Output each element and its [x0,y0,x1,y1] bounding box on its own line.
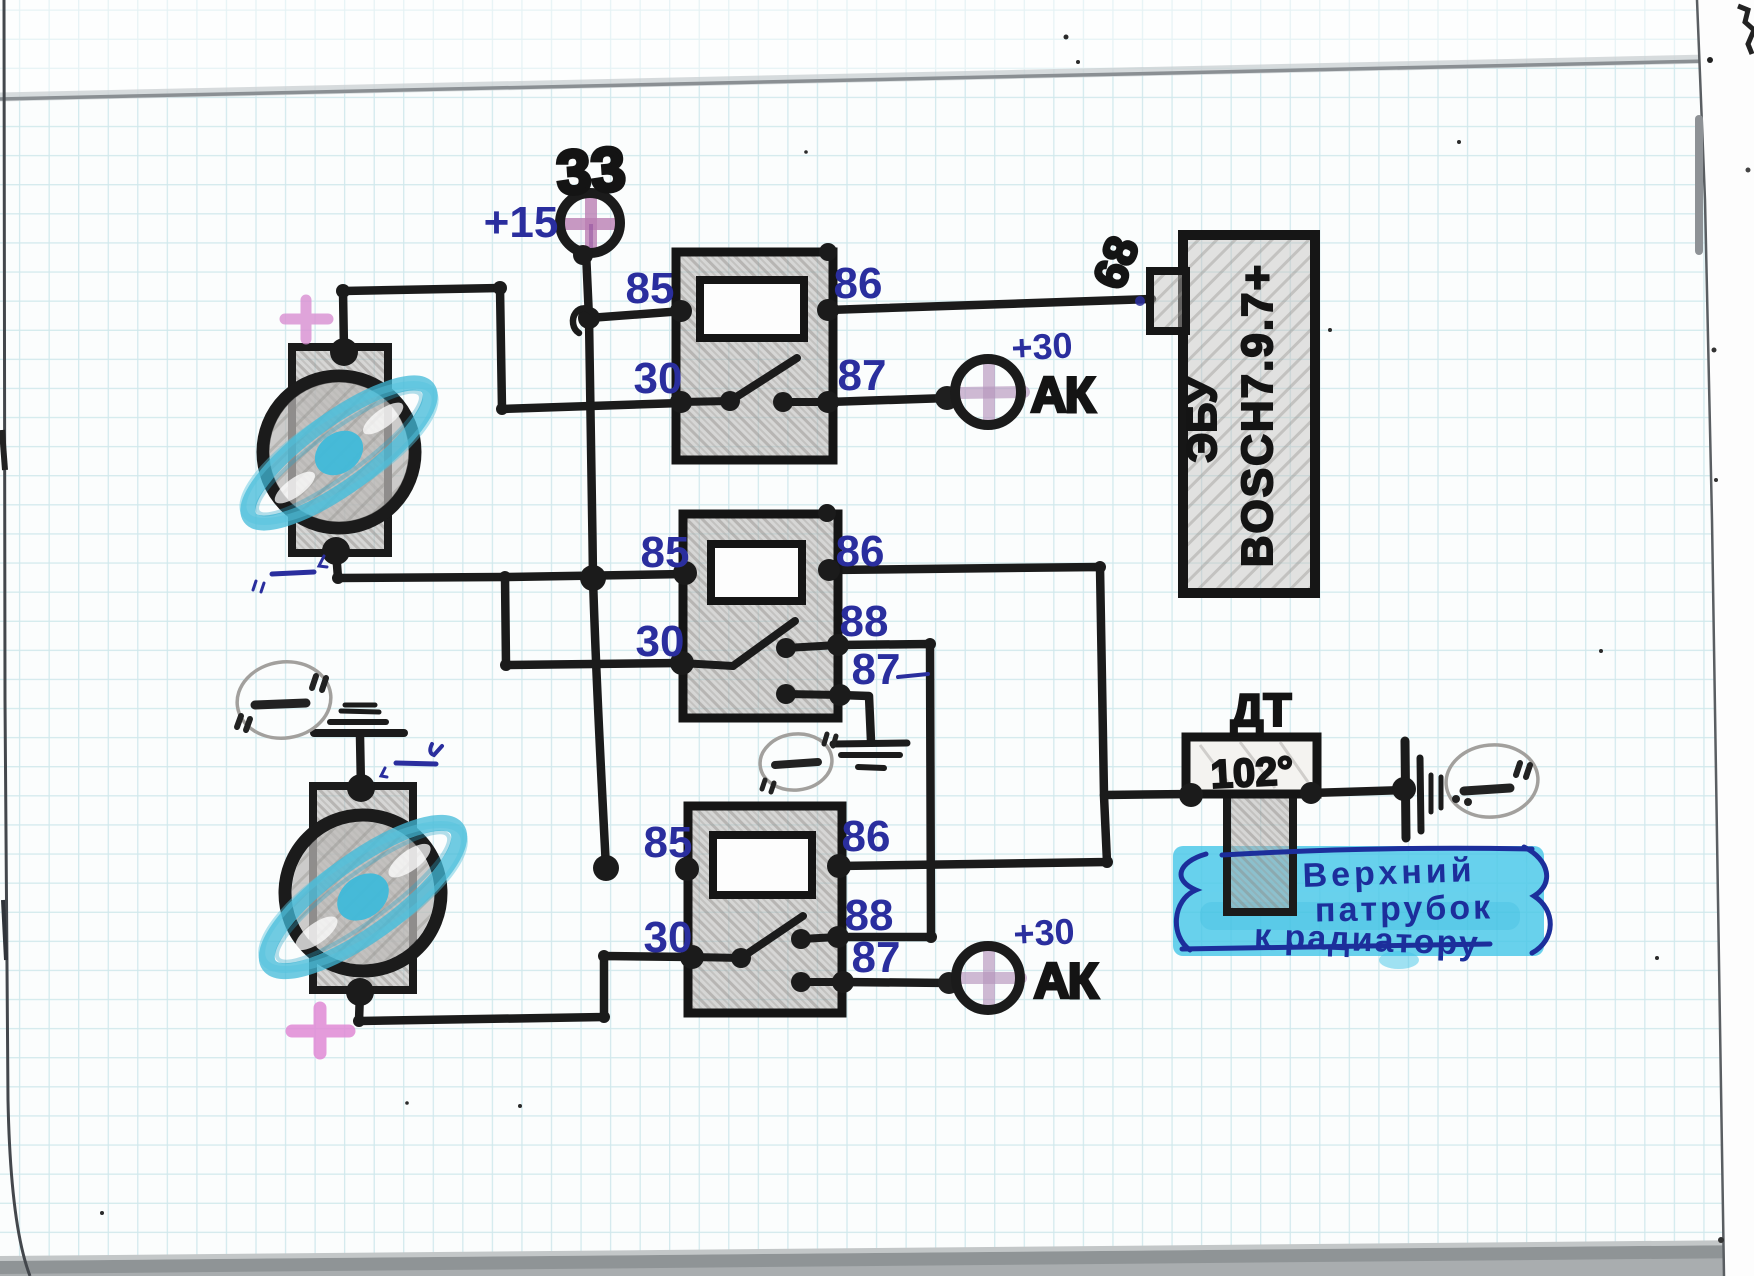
+30 AK terminal (bottom) [938,946,1021,1010]
svg-text:+30: +30 [1012,910,1075,954]
svg-text:85: 85 [626,264,675,313]
svg-text:к радиатору: к радиатору [1253,917,1480,963]
relay K3 body [688,806,842,1013]
temp sensor DT 102 body [1186,737,1317,794]
svg-text:30: 30 [634,354,683,403]
wire +15 stem [586,252,589,318]
svg-text:86: 86 [836,527,885,576]
fan motor M2 rotor circle [285,815,441,971]
blue minus marks at fan M1 [253,556,327,592]
relay K3 switch [692,916,843,982]
wire fan M1 plus to relay K1 pin 30 [343,288,681,409]
wire relay K1 pin 87 to +30 AK [828,398,948,402]
svg-text:86: 86 [842,812,891,861]
junction +15/85 with curl [578,307,600,329]
fan motor M1 body [292,347,388,553]
battery / chassis minus symbol right of sensor [1405,741,1441,838]
fan motor M2 body [313,786,413,990]
ECU BOSCH 7.9.7 body [1183,235,1315,593]
svg-text:102°: 102° [1210,749,1295,797]
svg-text:ЭБУ: ЭБУ [1178,377,1225,463]
ECU connector tab pin 68 [1150,271,1186,331]
svg-text:88: 88 [840,597,889,646]
fan M2 propeller (blue) [239,789,487,1005]
wire relay K2 pin 88 down to relay K3 pin 88 [838,644,931,937]
svg-text:30: 30 [636,617,685,666]
blue curly brace right of highlight box [1524,847,1550,953]
wire +15 to relay K1 pin 85 [589,311,683,318]
svg-text:86: 86 [834,259,883,308]
wire node A to sensor [1104,794,1191,795]
wire relay K1 pin 86 to ECU pin 68 [828,299,1152,310]
ground symbol below relay K2 [833,743,907,768]
svg-text:+15: +15 [484,198,559,247]
svg-text:+30: +30 [1010,324,1073,368]
svg-text:85: 85 [644,818,693,867]
wire relay K3 pin 86 to node A [839,796,1107,866]
blue line top of highlight box [1222,848,1532,855]
fan motor M1 rotor circle [263,376,415,528]
top page-edge curve [0,0,1754,95]
minus bubble near fan M2 ground [232,656,336,744]
svg-text:АК: АК [1034,953,1099,1009]
blue highlighter box (Верхний патрубок к радиатору) [1173,846,1544,969]
wire main +15 vertical bus [589,318,606,868]
blue minus marks at fan M2 ground [381,744,442,777]
wire fan M2 plus stem to ground [360,736,361,788]
svg-text:87: 87 [852,933,901,982]
relay K2 pins [673,561,697,585]
wire relay K3 pin 87 to +30 AK [843,982,950,983]
wire fan M1 minus to relay K2 pin 85 [336,551,685,578]
pink plus at fan M2 [292,1008,349,1053]
bottom page-edge band [0,1242,1754,1276]
fan M1 propeller (blue) [222,351,456,554]
wire sensor to battery minus [1311,790,1404,793]
pink plus at fan M1 [285,300,328,339]
wire relay K2 pin 86 to node A [829,567,1104,795]
relay K3 coil [713,835,812,895]
relay K2 coil [711,544,802,601]
svg-text:87: 87 [852,645,901,694]
relay K1 switch [681,358,828,402]
ground symbol above fan M2 (inverted) [314,705,404,733]
svg-text:87: 87 [838,351,887,400]
wire corner blobs [332,281,1113,1027]
junction +15 bus / relay K3 85 [593,855,619,881]
svg-text:ДТ: ДТ [1231,684,1292,736]
temp sensor DT 102 stem [1227,794,1293,912]
node +15 terminal circle [560,193,620,265]
fan M2 terminals [347,774,375,802]
svg-text:BOSCH7.9.7+: BOSCH7.9.7+ [1233,263,1282,567]
left page edge [4,0,30,1276]
relay K2 switch [681,621,840,695]
blue line bottom of highlight box [1182,944,1490,949]
blue curly brace left of highlight box [1176,854,1206,950]
wire relay K3 pin 88 stub [838,933,931,942]
wire relay K2 pin 87 to ground [840,695,871,741]
relay K1 pins [670,300,692,322]
relay K3 pins [675,857,699,881]
relay K1 coil [700,280,804,338]
+30 AK terminal (top) [935,359,1024,425]
fan M1 terminals [330,338,358,366]
svg-text:30: 30 [644,913,693,962]
wire branch to relay K2 pin 30 [505,577,681,665]
svg-text:АК: АК [1031,367,1096,423]
wire fan M2 minus to relay K3 pin 30 [359,956,692,1021]
junction fan1-minus / +15 bus [580,565,606,591]
relay K1 body [676,252,833,460]
right page edge [1697,0,1754,1276]
minus bubble near battery [1443,741,1541,821]
sensor pins [1179,783,1203,807]
svg-text:33: 33 [554,135,628,209]
svg-text:85: 85 [641,528,690,577]
relay K2 body [683,514,838,718]
minus bubble near relay K2 ground [757,730,836,793]
